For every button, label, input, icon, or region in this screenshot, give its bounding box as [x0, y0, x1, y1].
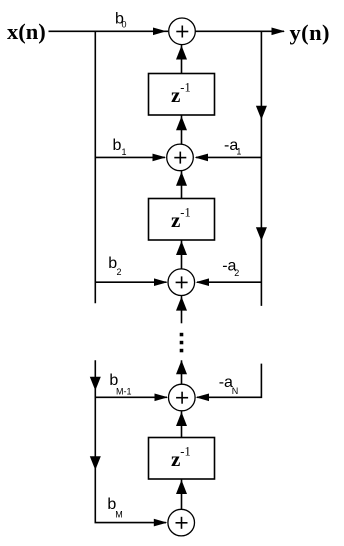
- arrowhead up into Z1 bottom: [176, 116, 187, 130]
- arrowhead -a1 into S2: [195, 154, 209, 162]
- wire input top from x(n) to summer S1: [49, 30, 169, 32]
- arrowhead b0 into S1: [153, 28, 167, 36]
- arrowhead output to y(n): [272, 28, 286, 36]
- dots ellipsis continuation: [180, 333, 184, 353]
- arrowhead down left rail lower 1: [90, 377, 101, 391]
- wire delay Z1 to summer S2 vertical: [181, 115, 183, 144]
- svg-text:y(n): y(n): [290, 20, 330, 45]
- summer S3: [168, 269, 195, 296]
- wire summer S2 to delay Z2 vertical: [181, 171, 183, 199]
- arrowhead up from S4 stub: [176, 360, 187, 374]
- summer S2: [167, 144, 194, 171]
- arrowhead up into S4: [176, 412, 187, 426]
- wire summer S4 up stub vertical: [181, 360, 183, 384]
- delay block Z3: [149, 438, 215, 480]
- svg-text:z-1: z-1: [171, 445, 191, 472]
- wire summer S4 to delay Z3 vertical: [181, 411, 183, 437]
- arrowhead down left rail lower 2: [90, 456, 101, 470]
- arrowhead -aN into S4: [196, 394, 210, 402]
- arrowhead up into S2: [176, 172, 187, 186]
- wire right rail upper segment: [260, 31, 262, 306]
- wire left rail upper segment: [94, 31, 96, 303]
- wire -a2 branch row3 right: [197, 281, 261, 283]
- svg-text:bM-1: bM-1: [109, 372, 131, 396]
- wire summer S1 to delay Z1 vertical: [181, 45, 183, 74]
- svg-text:-aN: -aN: [219, 374, 239, 396]
- summer S4: [169, 384, 196, 411]
- wire b2 branch row3 left: [95, 281, 166, 283]
- wire bM-1 branch row4 left: [95, 396, 167, 398]
- wire summer S3 down stub vertical: [181, 296, 183, 323]
- arrowhead bM-1 into S4: [155, 394, 169, 402]
- arrowhead bM into S5: [154, 519, 168, 527]
- arrowhead -a2 into S3: [196, 278, 210, 286]
- arrowhead up into S3: [176, 297, 187, 311]
- svg-text:z-1: z-1: [171, 81, 191, 108]
- wire delay Z3 to summer S5 vertical: [181, 479, 183, 509]
- wire right rail lower segment: [209, 364, 261, 398]
- arrowhead up into S1: [176, 46, 187, 60]
- svg-text:z-1: z-1: [171, 206, 191, 233]
- svg-text:-a1: -a1: [224, 137, 241, 157]
- arrowhead b1 into S2: [153, 154, 167, 162]
- wire -a1 branch row2 right: [196, 156, 261, 158]
- summer S1: [169, 18, 196, 45]
- svg-text:-a2: -a2: [222, 257, 239, 278]
- svg-text:b1: b1: [113, 137, 127, 157]
- wire bM arrow into summer S5: [152, 522, 166, 524]
- wire -aN branch row4 right: [197, 396, 210, 398]
- arrowhead down right rail upper 1: [256, 106, 267, 120]
- svg-text:b0: b0: [115, 10, 127, 29]
- svg-text:x(n): x(n): [7, 19, 46, 44]
- summer S5: [168, 509, 195, 536]
- arrowhead up into Z2 bottom: [176, 241, 187, 255]
- arrowhead b2 into S3: [154, 278, 168, 286]
- arrowhead down right rail upper 2: [256, 227, 267, 241]
- wire b1 branch row2 left: [95, 156, 165, 158]
- wire S1 output to y(n): [196, 30, 284, 32]
- arrowhead up into Z3 bottom: [176, 480, 187, 494]
- delay block Z1: [149, 74, 215, 116]
- wire delay Z2 to summer S3 vertical: [181, 240, 183, 269]
- wire left rail lower segment: [95, 360, 152, 522]
- delay block Z2: [149, 199, 215, 241]
- svg-text:bM: bM: [107, 496, 122, 520]
- svg-text:b2: b2: [108, 255, 121, 277]
